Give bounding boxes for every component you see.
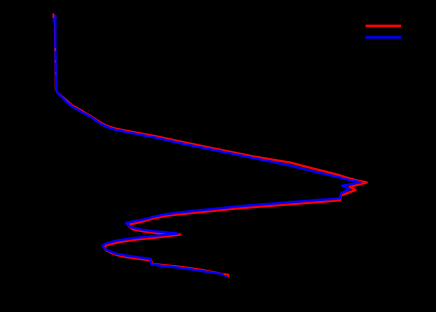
red dash on vertical y61 (55, 61, 56, 63)
blue curve (55, 15, 360, 275)
legend blue line (366, 36, 402, 39)
red dash on vertical y48 (55, 48, 56, 51)
red dash on vertical y73 (55, 73, 56, 75)
red curve top stub (52, 13, 54, 19)
blue curve top stub (53, 18, 55, 23)
red curve end dot (228, 276, 230, 277)
red curve (55, 23, 367, 275)
blue curve end dot (224, 276, 227, 278)
legend red line (366, 25, 402, 28)
